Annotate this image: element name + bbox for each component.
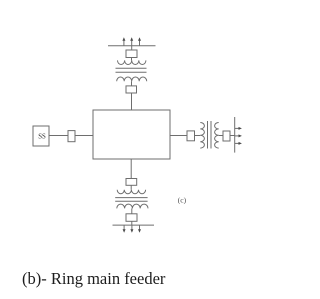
- svg-text:SS: SS: [38, 133, 46, 140]
- right secondary breaker box: [223, 131, 230, 141]
- caption: [22, 269, 165, 289]
- left isolator box: [68, 131, 75, 142]
- bottom feeder arrow 3: [138, 225, 141, 233]
- bottom distribution bus: [113, 224, 155, 226]
- right feeder arrow 3: [235, 142, 242, 145]
- top feeder arrow 2: [130, 37, 133, 46]
- wire breaker to bottom bus: [131, 221, 133, 225]
- transformer T2 core: [207, 121, 209, 149]
- wire breaker to transformer T3: [130, 185, 132, 189]
- top distribution bus: [108, 45, 156, 47]
- wire transformer T2 to right breaker: [219, 135, 223, 137]
- transformer T3 core: [115, 197, 147, 199]
- transformer T1 secondary winding: [118, 60, 146, 64]
- top feeder arrow 1: [122, 37, 125, 46]
- wire transformer T1 to breaker: [131, 81, 133, 86]
- wire SS to isolator: [49, 135, 68, 137]
- transformer T2 primary winding: [200, 123, 204, 149]
- transformer T3 secondary winding: [117, 204, 148, 208]
- wire substation to bottom breaker: [130, 159, 132, 179]
- main substation box: [93, 110, 170, 159]
- transformer T1 primary winding: [117, 77, 147, 81]
- bottom feeder arrow 2: [130, 225, 133, 233]
- bottom breaker box (primary side): [126, 179, 137, 186]
- top breaker box (primary side): [126, 86, 137, 93]
- supply source box SS: [33, 126, 49, 146]
- right feeder arrow 2: [235, 134, 242, 137]
- wire substation to right breaker: [170, 135, 187, 137]
- transformer T3 primary winding: [117, 190, 145, 194]
- right feeder arrow 1: [235, 127, 242, 130]
- svg-text:(c): (c): [178, 195, 187, 204]
- wire bus to top breaker: [131, 46, 133, 50]
- transformer T1 core: [116, 67, 147, 69]
- wire isolator to substation: [75, 135, 93, 137]
- wire breaker to right bus: [230, 135, 235, 137]
- wire breaker to transformer T2: [195, 135, 201, 137]
- bottom breaker box (secondary side): [126, 214, 137, 222]
- top feeder arrow 3: [138, 37, 141, 46]
- wire top branch to substation box: [131, 93, 133, 110]
- transformer T2 secondary winding: [215, 123, 219, 149]
- top breaker box (secondary side): [126, 50, 137, 58]
- wire transformer T3 to breaker: [131, 208, 133, 213]
- right distribution bus: [234, 117, 236, 153]
- bottom feeder arrow 1: [123, 225, 126, 233]
- right breaker box: [187, 131, 195, 141]
- wire breaker to transformer T1: [131, 58, 133, 61]
